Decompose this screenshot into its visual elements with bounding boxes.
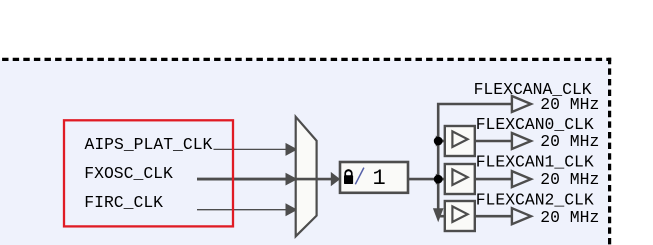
mux (clock selector trapezoid) <box>296 117 317 237</box>
buffer FLEXCAN0 <box>445 126 475 156</box>
dashed border top edge <box>0 58 611 61</box>
wire trunk to FLEXCAN0 buffer <box>438 140 445 143</box>
wire trunk to FLEXCAN2 buffer <box>438 215 445 218</box>
svg-text:FIRC_CLK: FIRC_CLK <box>84 193 163 212</box>
open arrowhead FLEXCAN2_CLK <box>512 208 531 224</box>
arrowhead FIRC_CLK into mux <box>286 203 298 216</box>
junction dot FLEXCAN0 branch <box>434 137 443 146</box>
svg-text:20 MHz: 20 MHz <box>540 132 599 151</box>
svg-text:FXOSC_CLK: FXOSC_CLK <box>84 164 173 183</box>
open arrowhead FLEXCAN0_CLK <box>512 133 531 149</box>
wire FLEXCAN2 buffer to arrow <box>475 215 512 218</box>
buffer FLEXCAN1 <box>445 164 475 194</box>
arrowhead FXOSC_CLK into mux <box>286 173 298 186</box>
trunk vertical wire with FLEXCANA branch <box>438 104 512 216</box>
lock icon <box>344 169 352 177</box>
arrowhead into FLEXCAN1 buffer (under junction dot) <box>436 174 445 185</box>
clock domain region background <box>0 59 610 245</box>
open arrowhead FLEXCAN1_CLK <box>512 171 531 187</box>
svg-text:20 MHz: 20 MHz <box>540 170 599 189</box>
arrowhead mux output into divider box <box>331 172 340 186</box>
wire FLEXCAN1 buffer to arrow <box>475 178 512 181</box>
svg-text:20 MHz: 20 MHz <box>540 208 599 227</box>
wire AIPS_PLAT_CLK to mux <box>214 148 288 150</box>
wire FIRC_CLK to mux <box>197 209 287 211</box>
buffer FLEXCAN2 <box>445 201 475 231</box>
arrowhead trunk bottom pointing down <box>433 208 444 222</box>
junction dot FLEXCAN1 branch <box>434 175 443 184</box>
arrowhead into FLEXCAN0 buffer (under junction dot) <box>436 136 445 147</box>
wire FXOSC_CLK to mux (selected, bold), continues through mux <box>197 178 297 181</box>
red highlight rectangle <box>64 120 233 226</box>
divider box /1 <box>340 162 408 193</box>
divider slash <box>355 168 364 185</box>
wire FLEXCAN0 buffer to arrow <box>475 140 512 143</box>
open arrowhead FLEXCANA_CLK <box>512 96 531 112</box>
svg-text:AIPS_PLAT_CLK: AIPS_PLAT_CLK <box>85 135 213 154</box>
arrowhead AIPS_PLAT_CLK into mux <box>286 143 298 156</box>
svg-text:20 MHz: 20 MHz <box>540 95 599 114</box>
wire selected clock through mux to divider box <box>296 178 332 181</box>
wire divider output to FLEXCAN1 buffer <box>408 178 445 181</box>
svg-text:1: 1 <box>373 166 386 191</box>
dashed border right edge <box>608 58 611 245</box>
